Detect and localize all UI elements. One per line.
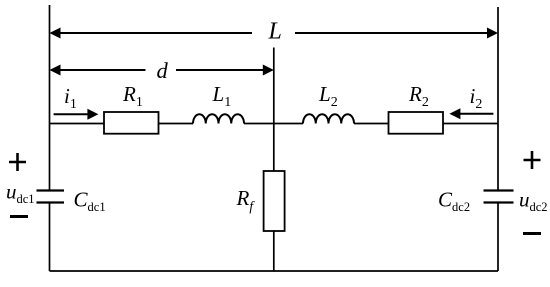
current arrow i1	[54, 109, 99, 120]
wire: left bus lower segment	[49, 203, 51, 272]
wire: L1 to L2 through center node	[244, 123, 303, 125]
inductor L1	[193, 114, 244, 123]
resistor Rf	[264, 171, 285, 231]
polarity minus sign left	[10, 215, 28, 218]
wire: center branch upper (node to Rf)	[273, 48, 275, 172]
inductor L2	[303, 114, 354, 123]
polarity plus sign left	[9, 153, 26, 171]
wire: R1 to L1	[159, 123, 194, 125]
dimension arrow d (double headed)	[50, 65, 274, 76]
resistor R2	[389, 112, 444, 134]
wire: left bus upper segment	[49, 5, 51, 191]
dimension arrow L (double headed)	[50, 28, 499, 39]
svg-text:L: L	[268, 19, 282, 45]
wire: right bus lower segment	[497, 203, 499, 272]
polarity minus sign right	[523, 232, 541, 235]
polarity plus sign right	[524, 151, 541, 169]
wire: right bus upper segment	[497, 7, 499, 191]
wire: bottom rail	[50, 270, 499, 272]
wire: main rail left bus to R1	[50, 123, 105, 125]
wire: L2 to R2	[354, 123, 389, 125]
svg-text:d: d	[157, 58, 169, 83]
wire: center branch lower (Rf to bottom rail)	[273, 231, 275, 271]
resistor R1	[104, 112, 159, 134]
capacitor C_dc1 plates	[37, 191, 65, 203]
capacitor C_dc2 plates	[484, 191, 514, 203]
current arrow i2	[449, 108, 493, 119]
wire: R2 to right bus	[443, 123, 498, 125]
